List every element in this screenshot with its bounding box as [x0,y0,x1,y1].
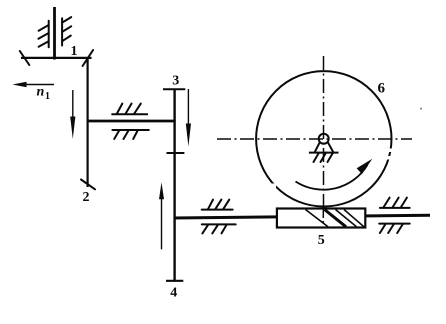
disc rim tick right [83,50,94,66]
bearing above screw shaft, right [380,198,410,208]
shaft 2 (vertical) [86,58,88,188]
rotation arrow on wheel 6 [296,159,373,190]
rotation arrow beside shaft 2 [70,90,75,139]
bearing above horizontal shaft [112,104,147,115]
shaft 3-4 (vertical) [173,89,175,281]
gear wheel tick (middle) [167,152,185,154]
svg-text:4: 4 [170,286,177,301]
svg-text:1: 1 [45,91,50,102]
bearing right of shaft 1 [62,17,71,45]
bottom screw shaft [174,215,431,218]
arrow n1 [13,82,55,87]
bearing below screw shaft, right [379,224,410,233]
friction wheel 6 [256,71,391,206]
shaft 1 (vertical input shaft) [53,7,56,60]
screw 5 thread hatching [306,210,365,227]
svg-text:6: 6 [378,80,386,96]
bearing above screw shaft, left [202,200,233,210]
scan speck [420,108,422,110]
gear wheel tick 3 (top) [163,88,185,90]
screw 5 body [277,209,365,228]
hand-drawn gap in wheel rim (lower left) [271,184,276,189]
centre line horizontal (dash-dot) [217,138,412,140]
svg-text:n: n [37,85,45,100]
svg-text:5: 5 [318,233,325,248]
hand-drawn gap in wheel rim (right) [387,149,394,153]
disc rim tick left [20,51,30,65]
horizontal gear shaft [87,120,176,123]
svg-text:2: 2 [83,190,90,205]
pivot ground hatching [314,153,334,162]
fixed pivot at wheel 6 centre [309,134,339,153]
rotation arrow beside shaft 4 [159,182,164,249]
svg-text:3: 3 [172,74,179,89]
centre line through screw 5 [322,209,324,223]
rim tick on shaft 2 bottom [81,180,95,190]
svg-text:1: 1 [71,44,78,59]
centre line vertical (dash-dot) [323,56,325,223]
bearing below horizontal shaft [112,130,148,139]
friction disc on shaft 1 [21,57,92,59]
rotation arrow beside shaft 3 [186,89,191,147]
bearing below screw shaft, left [202,224,236,233]
gear wheel tick 4 (bottom) [166,280,183,282]
bearing left of shaft 1 [38,21,48,48]
